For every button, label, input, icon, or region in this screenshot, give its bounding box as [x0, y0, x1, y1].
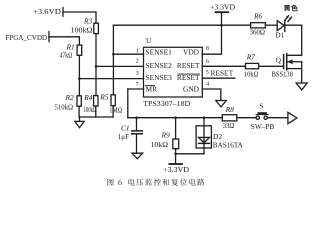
svg-text:RESET: RESET	[211, 69, 234, 78]
svg-text:SENSE2: SENSE2	[146, 61, 173, 70]
svg-text:D1: D1	[275, 31, 284, 40]
svg-text:SW–PB: SW–PB	[251, 122, 275, 131]
svg-text:FPGA_CVDD: FPGA_CVDD	[6, 33, 48, 42]
svg-text:1: 1	[136, 48, 139, 54]
svg-text:TPS3307–18D: TPS3307–18D	[143, 99, 191, 108]
svg-text:R4: R4	[83, 93, 93, 102]
svg-text:R5: R5	[99, 93, 109, 102]
svg-text:R2: R2	[65, 93, 75, 102]
svg-text:R3: R3	[83, 17, 93, 26]
svg-text:GND: GND	[183, 85, 200, 94]
svg-text:R9: R9	[161, 131, 171, 140]
svg-text:7: 7	[136, 82, 139, 88]
svg-text:10kΩ: 10kΩ	[244, 70, 259, 79]
svg-text:3: 3	[136, 71, 139, 77]
svg-text:33Ω: 33Ω	[223, 121, 235, 130]
svg-text:+3.3VD: +3.3VD	[163, 167, 189, 174]
svg-text:Q: Q	[276, 56, 282, 65]
svg-text:510kΩ: 510kΩ	[55, 103, 74, 112]
svg-text:10kΩ: 10kΩ	[151, 140, 169, 149]
svg-text:VDD: VDD	[183, 48, 200, 57]
svg-text:47kΩ: 47kΩ	[60, 51, 73, 60]
svg-text:RESET: RESET	[177, 61, 200, 70]
svg-text:RESET: RESET	[177, 73, 200, 82]
svg-text:360Ω: 360Ω	[250, 28, 266, 37]
svg-text:D2: D2	[213, 132, 222, 141]
svg-text:+3.6VD: +3.6VD	[33, 7, 62, 16]
svg-text:BAS16TA: BAS16TA	[213, 141, 244, 150]
svg-text:100kΩ: 100kΩ	[84, 105, 97, 114]
svg-text:100kΩ: 100kΩ	[71, 25, 94, 34]
svg-text:U: U	[146, 36, 152, 45]
svg-text:+3.3VD: +3.3VD	[210, 4, 235, 11]
svg-text:SENSE3: SENSE3	[146, 73, 173, 82]
svg-text:1MΩ: 1MΩ	[109, 105, 122, 114]
svg-text:BSS138: BSS138	[272, 69, 294, 78]
svg-text:8: 8	[206, 46, 209, 52]
svg-text:4: 4	[206, 82, 209, 88]
svg-text:R6: R6	[253, 11, 263, 20]
svg-text:5: 5	[206, 70, 209, 76]
svg-text:R7: R7	[246, 53, 256, 62]
svg-text:MR: MR	[146, 85, 158, 94]
svg-text:6: 6	[206, 59, 209, 65]
svg-text:S: S	[259, 101, 263, 110]
svg-text:2: 2	[136, 59, 139, 65]
svg-text:R8: R8	[225, 105, 235, 114]
svg-text:1μF: 1μF	[118, 132, 129, 141]
svg-text:SENSE1: SENSE1	[146, 48, 173, 57]
